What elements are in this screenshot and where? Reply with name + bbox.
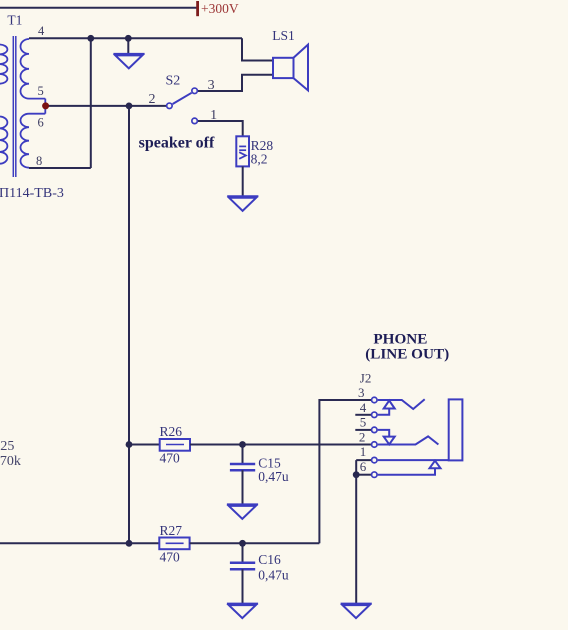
wire +300V rail: [0, 7, 197, 9]
wire C15 to ground: [242, 470, 244, 504]
svg-text:4: 4: [38, 24, 45, 38]
connector J2 pin 1: [372, 457, 378, 463]
svg-text:3: 3: [358, 385, 365, 400]
svg-text:5: 5: [38, 84, 44, 98]
connector J2 pin 5: [372, 427, 378, 433]
node junction pin1/pin6: [353, 471, 360, 478]
ground top: [113, 54, 144, 69]
svg-text:C16: C16: [258, 552, 281, 567]
jack pin4 break contact: [378, 401, 395, 415]
transformer T1 secondary winding bottom (pins 6-8): [21, 114, 46, 168]
ground C15: [227, 504, 258, 519]
jack pin6 sleeve contact: [378, 461, 441, 475]
transformer T1 primary winding (left, partial): [0, 44, 7, 163]
wire pin4 stub: [355, 414, 371, 416]
wire tap to switch: [46, 105, 166, 107]
svg-text:470k: 470k: [0, 454, 21, 469]
svg-text:T1: T1: [7, 13, 22, 28]
wire pin5 to pin6 vertical: [44, 99, 46, 114]
wire switch1 to R28: [198, 121, 243, 136]
svg-text:R25: R25: [0, 439, 14, 454]
svg-text:LS1: LS1: [272, 28, 295, 43]
svg-text:J2: J2: [360, 370, 372, 385]
wire ground stub top: [127, 38, 129, 54]
wire C16 top stub: [242, 543, 244, 562]
svg-text:6: 6: [360, 459, 367, 474]
svg-text:5: 5: [360, 415, 367, 430]
svg-text:R26: R26: [160, 424, 183, 439]
connector J2 pin 4: [372, 412, 378, 418]
transformer T1 core: [13, 36, 16, 177]
jack ring contact chevron: [378, 436, 439, 444]
ground J2: [341, 604, 372, 619]
node junction pin8/top: [87, 35, 94, 42]
switch S2 terminal 3: [192, 88, 198, 94]
svg-text:0,47u: 0,47u: [258, 568, 289, 583]
svg-text:(LINE OUT): (LINE OUT): [365, 346, 449, 363]
svg-text:S2: S2: [166, 74, 181, 89]
wire pin8 riser: [90, 38, 92, 168]
node junction bus/R26: [126, 441, 133, 448]
resistor R26 power mark: [166, 444, 184, 446]
svg-text:8,2: 8,2: [251, 152, 268, 167]
svg-text:8: 8: [36, 154, 42, 168]
wire switch3 to speaker: [198, 75, 273, 91]
svg-text:ТП114-ТВ-3: ТП114-ТВ-3: [0, 186, 64, 201]
transformer T1 secondary winding top (pins 4-5): [21, 39, 46, 99]
wire left edge to R27: [0, 542, 159, 544]
node +300V terminal bar: [196, 1, 199, 16]
wire R28 to ground: [242, 166, 244, 196]
wire pin4 top rail: [29, 37, 242, 39]
svg-text:R27: R27: [160, 523, 183, 538]
svg-text:speaker off: speaker off: [139, 135, 215, 152]
capacitor C15: [230, 464, 255, 470]
connector J2 pin 2: [372, 442, 378, 448]
wire J2 ground drop: [355, 475, 357, 604]
svg-text:470: 470: [160, 450, 181, 465]
svg-text:470: 470: [160, 550, 181, 565]
wire riser to pin3: [319, 400, 371, 543]
resistor R28 power mark VII: [239, 146, 246, 158]
svg-text:4: 4: [360, 400, 367, 415]
ground R28: [227, 196, 258, 211]
svg-text:1: 1: [360, 444, 367, 459]
node junction bus/switch row: [126, 103, 133, 110]
svg-text:6: 6: [38, 116, 44, 130]
node junction R26/C15: [239, 441, 246, 448]
switch S2 terminal 1: [192, 118, 198, 124]
svg-text:2: 2: [359, 430, 366, 445]
resistor R26: [160, 439, 190, 451]
svg-text:2: 2: [149, 92, 156, 107]
node junction bus/R27: [126, 540, 133, 547]
switch S2 terminal 2: [167, 103, 173, 109]
wire R27 to riser: [190, 542, 320, 544]
wire pin5 stub: [355, 429, 371, 431]
resistor R27 power mark: [166, 542, 184, 544]
jack tip contact chevron: [378, 399, 425, 409]
speaker LS1: [273, 45, 308, 91]
wire main bus vertical: [128, 106, 130, 543]
wire R26 to pin2: [190, 444, 371, 446]
wire pin8 stub: [29, 167, 91, 169]
svg-text:+300V: +300V: [201, 1, 239, 16]
svg-text:0,47u: 0,47u: [258, 469, 289, 484]
connector J2 pin 6: [372, 472, 378, 478]
jack sleeve line: [378, 459, 449, 461]
jack pin5 make contact: [378, 430, 395, 445]
ground C16: [227, 604, 258, 619]
node junction R27/C16: [239, 540, 246, 547]
capacitor C16: [230, 563, 255, 570]
resistor R27: [159, 538, 189, 550]
wire speaker top branch: [242, 38, 273, 60]
node junction ground/top: [125, 35, 132, 42]
wire C16 to ground: [242, 569, 244, 603]
wire bus to R26: [129, 444, 160, 446]
wire pin1 stub: [356, 460, 371, 475]
jack bushing: [449, 399, 463, 460]
switch S2 lever: [173, 93, 192, 104]
wire C15 top stub: [242, 445, 244, 465]
node red junction pins 5-6: [42, 102, 49, 109]
wire pin6 stub: [356, 474, 371, 476]
connector J2 pin 3: [372, 397, 378, 403]
resistor R28: [236, 136, 249, 166]
